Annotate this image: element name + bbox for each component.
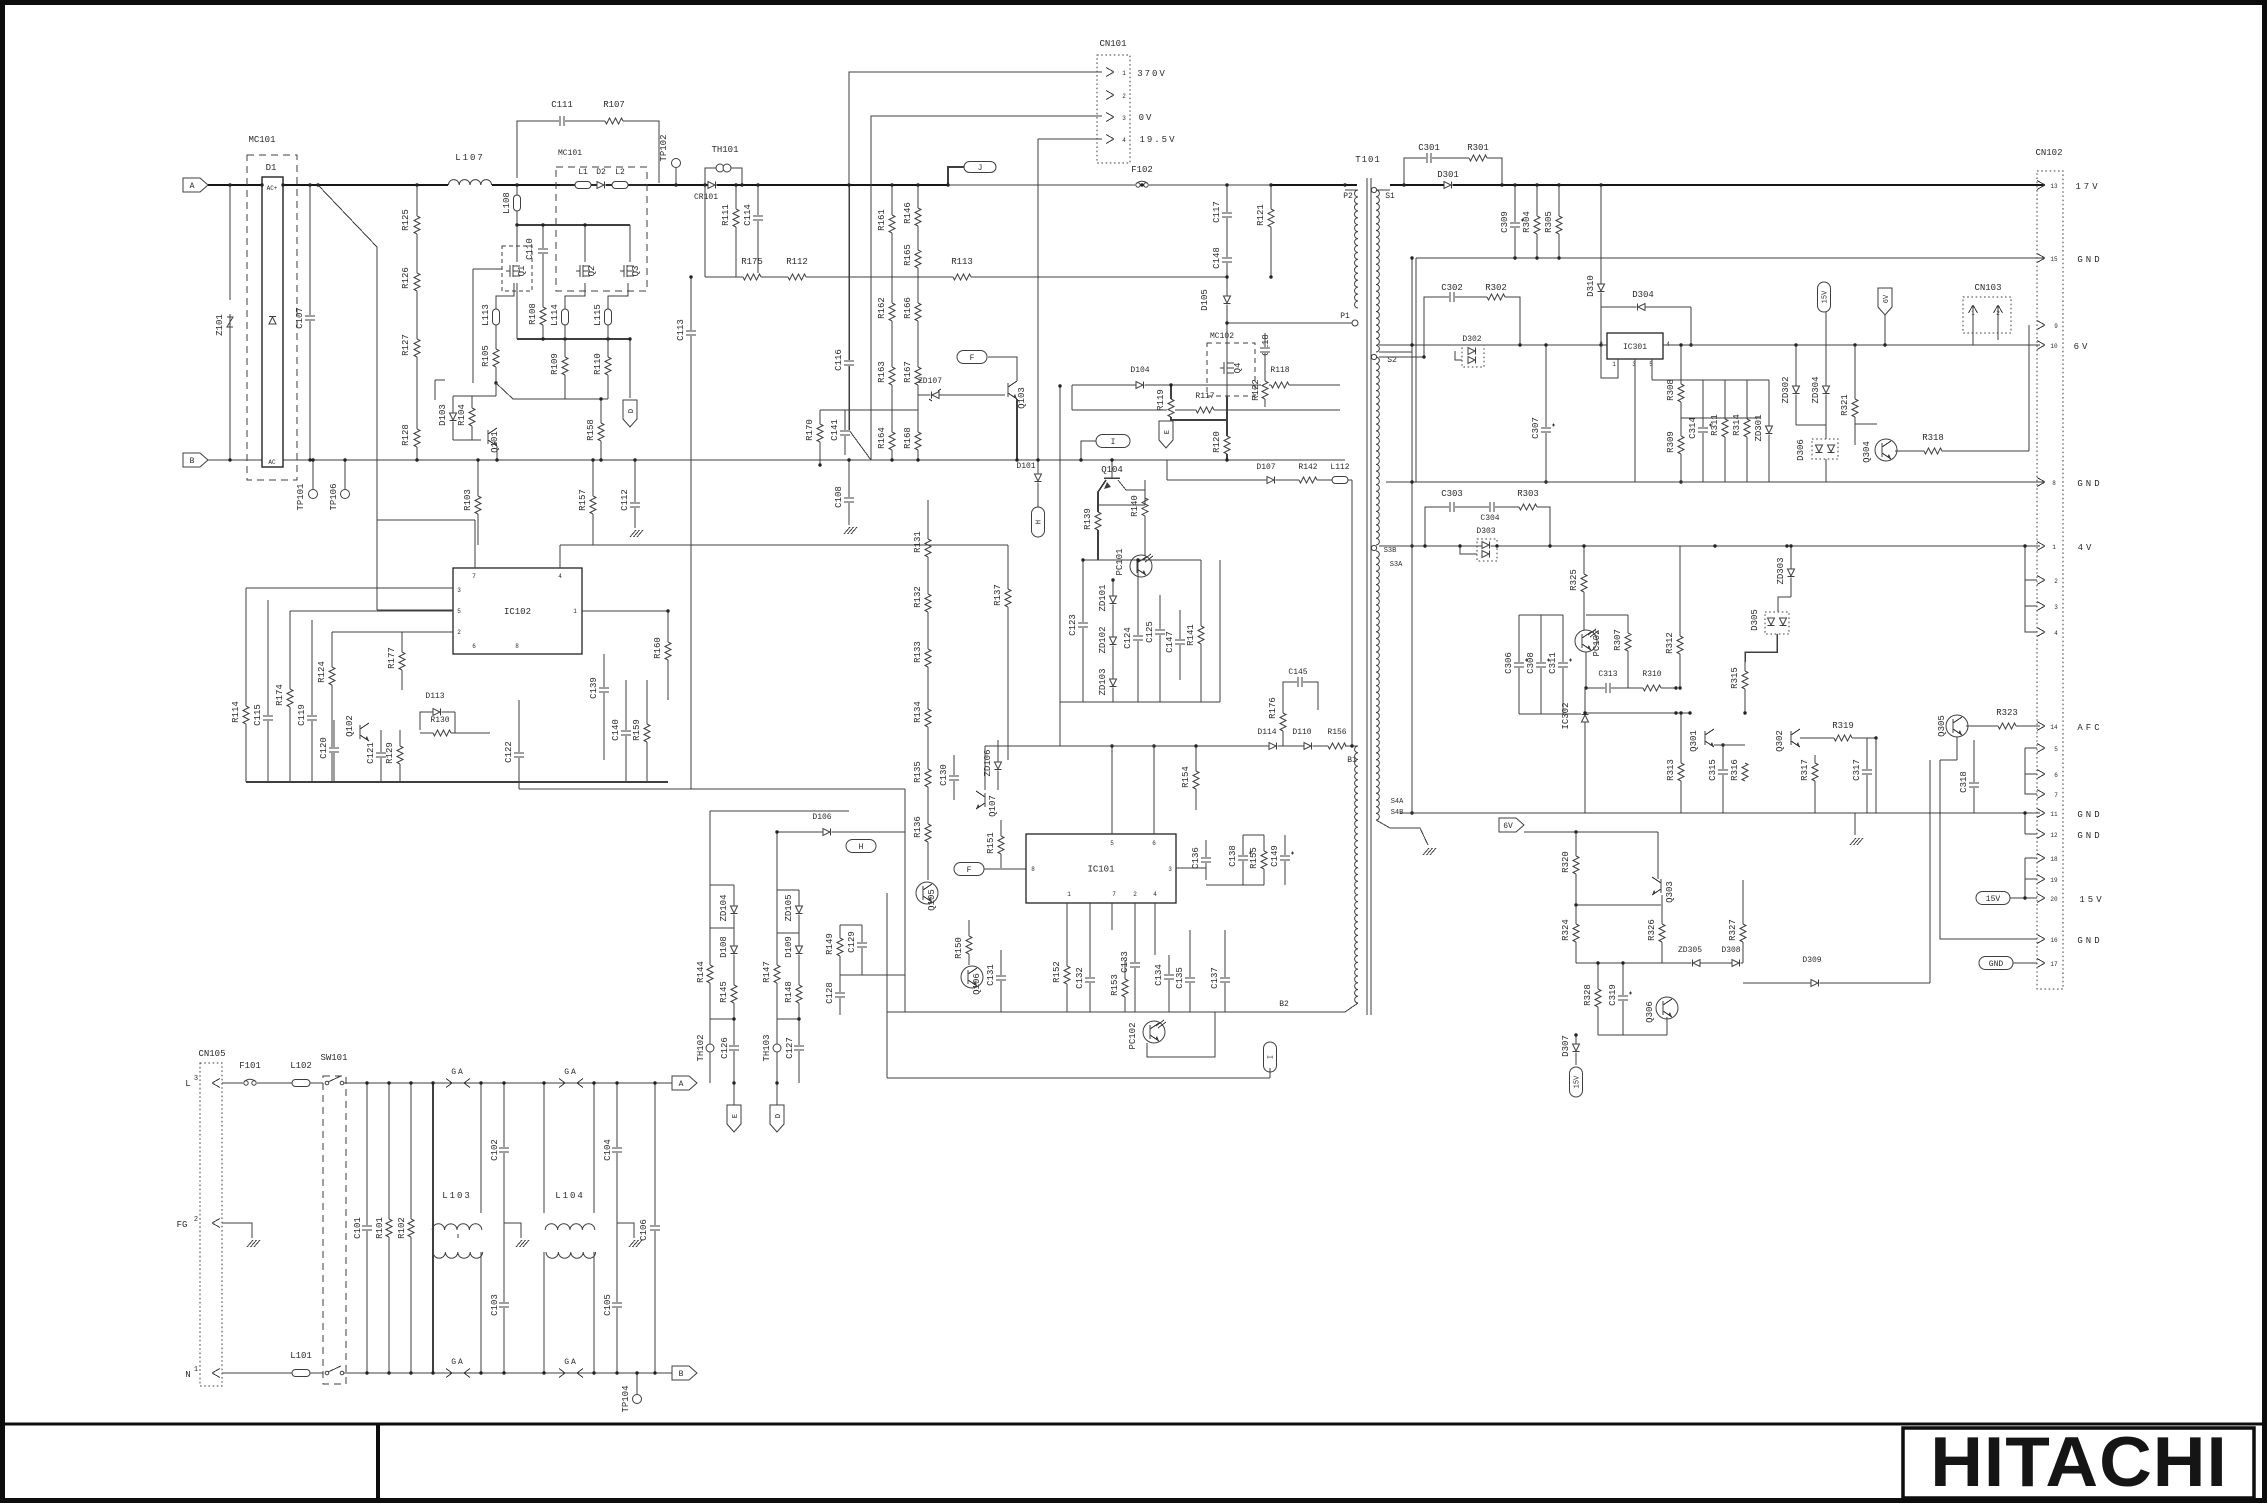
svg-text:R129: R129 [385, 742, 395, 764]
wire ic102 bottom rail [246, 781, 668, 783]
svg-text:R126: R126 [401, 267, 411, 289]
svg-text:GA: GA [451, 1358, 465, 1367]
svg-text:7: 7 [1112, 891, 1116, 898]
svg-text:R152: R152 [1052, 961, 1062, 983]
svg-text:C127: C127 [785, 1037, 795, 1059]
svg-text:CR101: CR101 [694, 193, 718, 202]
svg-text:D301: D301 [1437, 170, 1459, 180]
svg-text:C125: C125 [1145, 621, 1155, 643]
wire d305 to r315 [1745, 634, 1777, 662]
svg-text:GND: GND [1989, 960, 2004, 969]
wire R140 down [1144, 516, 1146, 556]
wire bottom rail 1077 [887, 1077, 1270, 1079]
svg-text:R145: R145 [719, 981, 729, 1003]
svg-text:C136: C136 [1191, 847, 1201, 869]
svg-text:ZD102: ZD102 [1098, 626, 1108, 653]
wire C116 diagonal [849, 430, 871, 460]
svg-text:D: D [775, 1114, 783, 1118]
node B flag bottom [672, 1366, 697, 1380]
svg-text:R164: R164 [877, 427, 887, 449]
svg-text:D107: D107 [1256, 463, 1275, 472]
svg-text:D108: D108 [719, 936, 729, 958]
svg-text:R327: R327 [1728, 919, 1738, 941]
svg-text:C107: C107 [295, 307, 305, 329]
wire row 480 D107 [1167, 479, 1352, 481]
svg-text:1: 1 [573, 608, 577, 615]
wire c306 rails [1519, 614, 1563, 616]
svg-text:R148: R148 [784, 981, 794, 1003]
svg-text:F: F [967, 866, 972, 875]
svg-text:18: 18 [2050, 856, 2058, 863]
svg-text:D1: D1 [266, 163, 277, 173]
svg-text:4: 4 [1122, 137, 1126, 144]
wire 6V bus [1379, 344, 2040, 346]
svg-text:R113: R113 [951, 257, 973, 267]
svg-text:R103: R103 [463, 489, 473, 511]
wire diagonal from bus A [318, 185, 377, 610]
net pin 15V [2037, 894, 2045, 899]
node B input flag [183, 453, 208, 467]
node I pill [1096, 435, 1130, 448]
svg-text:TH103: TH103 [762, 1034, 772, 1061]
svg-text:PC102: PC102 [1128, 1022, 1138, 1049]
svg-text:R153: R153 [1110, 974, 1120, 996]
ground FG [247, 1240, 253, 1247]
node D flag bottom [770, 1105, 784, 1132]
svg-text:R176: R176 [1268, 697, 1278, 719]
svg-text:R139: R139 [1083, 508, 1093, 530]
svg-text:R122: R122 [1251, 379, 1261, 401]
wire r149 rail [840, 924, 862, 926]
svg-text:D302: D302 [1462, 335, 1481, 344]
wire r308 tap [1681, 417, 1760, 419]
svg-text:C313: C313 [1598, 670, 1617, 679]
svg-text:C110: C110 [525, 238, 535, 260]
wire C111 R107 top loop [517, 121, 659, 183]
svg-text:C301: C301 [1418, 143, 1440, 153]
svg-text:C304: C304 [1480, 514, 1499, 523]
svg-text:7: 7 [2054, 792, 2058, 799]
title block divider line [3, 1423, 2265, 1426]
svg-text:C148: C148 [1212, 247, 1222, 269]
svg-text:C149: C149 [1270, 845, 1280, 867]
wire pins 18 19 bracket [2037, 854, 2045, 859]
svg-text:2: 2 [1122, 93, 1126, 100]
svg-text:8: 8 [2052, 480, 2056, 487]
svg-text:D104: D104 [1130, 366, 1149, 375]
svg-text:R160: R160 [653, 637, 663, 659]
wire r321 down to q304 [1854, 430, 1856, 445]
svg-text:C319: C319 [1608, 984, 1618, 1006]
svg-text:R177: R177 [387, 647, 397, 669]
svg-text:S4A: S4A [1391, 798, 1404, 806]
svg-text:R170: R170 [805, 419, 815, 441]
wire S2 line [1379, 356, 1424, 358]
svg-text:ZD304: ZD304 [1811, 376, 1821, 403]
svg-text:1: 1 [1122, 70, 1126, 77]
wire R119 bottom row [1171, 419, 1227, 421]
wire P2 to bus [1343, 183, 1346, 186]
svg-text:R127: R127 [401, 334, 411, 356]
wire L input [222, 1082, 236, 1084]
svg-text:R303: R303 [1517, 489, 1539, 499]
svg-text:C147: C147 [1165, 631, 1175, 653]
svg-text:15V: 15V [1574, 1075, 1582, 1088]
wire f102 bus segment [1140, 183, 1143, 186]
svg-text:N: N [185, 1370, 190, 1380]
svg-text:R101: R101 [375, 1217, 385, 1239]
ground C112 [630, 530, 636, 537]
node I pill vertical [1264, 1042, 1277, 1072]
wire 6V pin [2037, 341, 2045, 346]
svg-text:R128: R128 [401, 424, 411, 446]
svg-text:C145: C145 [1288, 668, 1307, 677]
wire ic102 pin1 right [582, 610, 668, 612]
svg-text:J: J [978, 164, 983, 173]
wire GND rail 258 [1416, 257, 2045, 259]
svg-text:1: 1 [1612, 361, 1616, 368]
svg-text:ZD107: ZD107 [918, 377, 942, 386]
svg-text:C311: C311 [1548, 652, 1558, 674]
wire r137 top [1007, 545, 1009, 560]
module MC101 dashed box 2 [556, 167, 647, 291]
svg-text:Q302: Q302 [1775, 730, 1785, 752]
svg-text:R114: R114 [231, 701, 241, 723]
svg-text:12: 12 [2050, 832, 2058, 839]
svg-text:R149: R149 [825, 933, 835, 955]
wire source rail thick [517, 338, 630, 340]
net pin GND 258 [2037, 254, 2045, 259]
svg-text:C302: C302 [1441, 283, 1463, 293]
svg-text:D304: D304 [1632, 290, 1654, 300]
svg-text:C114: C114 [743, 204, 753, 226]
wire Q101 emitter to bus B [496, 446, 498, 460]
svg-text:16: 16 [2050, 937, 2058, 944]
svg-text:D303: D303 [1476, 527, 1495, 536]
wire 610 link [377, 609, 453, 611]
IC IC301 [1607, 333, 1663, 359]
svg-text:IC302: IC302 [1561, 702, 1571, 729]
wire Q103 collector [988, 357, 1017, 381]
svg-text:GND: GND [2077, 810, 2102, 820]
ground transformer [1423, 848, 1429, 855]
node 15V pill bottom [1976, 892, 2010, 905]
svg-text:0V: 0V [1139, 113, 1154, 123]
svg-text:L1: L1 [578, 168, 588, 177]
svg-text:C111: C111 [551, 100, 573, 110]
wire q303 base [1576, 904, 1661, 906]
svg-text:R310: R310 [1642, 670, 1661, 679]
node 15V pill lower left [1570, 1067, 1583, 1097]
svg-text:D113: D113 [425, 692, 444, 701]
svg-text:HITACHI: HITACHI [1930, 1423, 2228, 1502]
svg-text:R105: R105 [481, 345, 491, 367]
svg-text:IC102: IC102 [504, 607, 531, 617]
wire zd top rails [710, 884, 734, 886]
svg-text:ZD303: ZD303 [1776, 557, 1786, 584]
svg-text:ZD103: ZD103 [1098, 668, 1108, 695]
svg-text:R147: R147 [762, 961, 772, 983]
svg-text:R321: R321 [1840, 394, 1850, 416]
svg-text:C134: C134 [1154, 964, 1164, 986]
svg-text:Q304: Q304 [1862, 441, 1872, 463]
node E flag [1159, 421, 1173, 448]
svg-text:AFC: AFC [2077, 723, 2102, 733]
svg-text:R142: R142 [1298, 463, 1317, 472]
svg-text:R315: R315 [1730, 667, 1740, 689]
svg-text:ZD101: ZD101 [1098, 584, 1108, 611]
svg-text:C121: C121 [366, 742, 376, 764]
svg-text:R130: R130 [430, 716, 449, 725]
svg-text:IC301: IC301 [1623, 343, 1647, 352]
wire Q1 gate [473, 268, 502, 270]
wire bottom rail 1012 [887, 1011, 1345, 1013]
svg-text:3: 3 [1168, 866, 1172, 873]
svg-text:C128: C128 [825, 982, 835, 1004]
wire zd rows [710, 927, 734, 929]
node A input flag [183, 178, 208, 192]
svg-text:R150: R150 [954, 937, 964, 959]
svg-text:R108: R108 [528, 303, 538, 325]
svg-text:GA: GA [564, 1068, 578, 1077]
svg-text:AC: AC [268, 459, 276, 466]
wire bus 17V thick [1390, 184, 2045, 186]
svg-text:IC101: IC101 [1087, 865, 1114, 875]
svg-text:R323: R323 [1996, 708, 2018, 718]
wire filter bottom rail [344, 1372, 673, 1374]
svg-text:R134: R134 [913, 701, 923, 723]
wire gnd16 link [1940, 760, 2037, 939]
svg-text:5: 5 [2054, 746, 2058, 753]
svg-text:L115: L115 [593, 304, 603, 326]
svg-text:C104: C104 [603, 1139, 613, 1161]
svg-text:ZD105: ZD105 [784, 894, 794, 921]
svg-text:D309: D309 [1802, 956, 1821, 965]
wire TH101 down [704, 185, 706, 277]
node 6V flag right [1878, 288, 1892, 315]
svg-text:R155: R155 [1249, 847, 1259, 869]
wire 370V [849, 72, 1102, 185]
svg-text:15: 15 [2050, 256, 2058, 263]
svg-text:L2: L2 [615, 168, 625, 177]
svg-text:C116: C116 [834, 349, 844, 371]
svg-text:C315: C315 [1708, 759, 1718, 781]
wire long rails [519, 788, 905, 790]
wire s4 ground [1376, 820, 1428, 845]
svg-text:R121: R121 [1256, 204, 1266, 226]
wire ic102 left pins [246, 587, 453, 589]
svg-text:ZD301: ZD301 [1754, 414, 1764, 441]
wire cn103 down [1972, 333, 1974, 345]
svg-text:R144: R144 [696, 961, 706, 983]
svg-text:20: 20 [2050, 896, 2058, 903]
wire 19.5V vertical [1037, 139, 1039, 460]
wire d113 r130 join [454, 712, 456, 733]
svg-text:GND: GND [2077, 831, 2102, 841]
svg-text:C105: C105 [603, 1294, 613, 1316]
svg-text:L104: L104 [555, 1191, 585, 1201]
svg-text:R174: R174 [275, 684, 285, 706]
svg-text:R167: R167 [903, 361, 913, 383]
svg-text:R146: R146 [903, 202, 913, 224]
svg-text:R320: R320 [1561, 851, 1571, 873]
svg-text:R165: R165 [903, 244, 913, 266]
svg-text:R154: R154 [1181, 766, 1191, 788]
node A flag bottom [672, 1076, 697, 1090]
svg-text:R301: R301 [1467, 143, 1489, 153]
svg-text:C102: C102 [490, 1139, 500, 1161]
svg-text:R317: R317 [1800, 759, 1810, 781]
svg-text:13: 13 [2050, 183, 2058, 190]
svg-text:TP102: TP102 [659, 134, 669, 161]
svg-text:Q103: Q103 [1017, 387, 1027, 409]
wire r318 up to pin9 [2028, 325, 2030, 451]
svg-text:R326: R326 [1647, 919, 1657, 941]
svg-text:FG: FG [177, 1220, 188, 1230]
svg-text:R166: R166 [903, 297, 913, 319]
svg-text:C120: C120 [319, 737, 329, 759]
wire L112 down [1351, 480, 1353, 746]
svg-text:C135: C135 [1175, 967, 1185, 989]
svg-text:C129: C129 [847, 931, 857, 953]
svg-text:L114: L114 [550, 304, 560, 326]
svg-text:370V: 370V [1137, 69, 1167, 79]
wire q306 rails [1598, 1034, 1667, 1036]
wire right spine 1412 [1411, 258, 1413, 813]
svg-text:L102: L102 [290, 1061, 312, 1071]
svg-text:R112: R112 [786, 257, 808, 267]
svg-text:L108: L108 [502, 192, 512, 214]
svg-text:3: 3 [457, 587, 461, 594]
svg-text:I: I [1268, 1055, 1276, 1059]
svg-text:R157: R157 [578, 489, 588, 511]
svg-text:R161: R161 [877, 209, 887, 231]
wire gnd rail drop [1415, 258, 1417, 482]
svg-text:R311: R311 [1710, 414, 1720, 436]
switch SW101 [323, 1076, 346, 1384]
svg-text:C314: C314 [1688, 417, 1698, 439]
wire bus A thin segment [947, 184, 1271, 186]
svg-text:R141: R141 [1186, 624, 1196, 646]
wire q305 vert [1956, 737, 1958, 760]
svg-text:S1: S1 [1385, 192, 1395, 201]
ground after C102 [504, 1223, 521, 1238]
svg-text:C103: C103 [490, 1294, 500, 1316]
svg-text:A: A [190, 182, 195, 191]
svg-text:17V: 17V [2075, 182, 2100, 192]
svg-text:Z101: Z101 [215, 314, 225, 336]
HITACHI logo box [1903, 1428, 2254, 1498]
svg-text:6: 6 [2054, 772, 2058, 779]
svg-text:L: L [185, 1079, 190, 1089]
node 15V pill right [1818, 282, 1831, 312]
net pin GND 11 [2037, 809, 2045, 814]
svg-text:R304: R304 [1522, 211, 1532, 233]
svg-text:R307: R307 [1613, 629, 1623, 651]
wire 1060 down [1059, 702, 1061, 746]
wire ic301 pins [1601, 344, 1607, 346]
svg-text:R312: R312 [1665, 632, 1675, 654]
net pin 17V [2037, 181, 2045, 186]
svg-text:Q107: Q107 [988, 795, 998, 817]
svg-text:R175: R175 [741, 257, 763, 267]
svg-text:C115: C115 [253, 704, 263, 726]
svg-text:MC101: MC101 [558, 149, 582, 158]
svg-text:C308: C308 [1526, 652, 1536, 674]
svg-text:6V: 6V [2074, 342, 2091, 352]
svg-text:C117: C117 [1212, 201, 1222, 223]
wire pc102 box [1585, 652, 1587, 688]
wire V 1072 [1071, 385, 1073, 410]
svg-text:15V: 15V [1986, 895, 2001, 904]
wire P1 node down [1226, 323, 1228, 460]
wire pins 2 3 4 [2037, 576, 2045, 581]
wire F to IC101 [984, 868, 1026, 870]
wire center vertical 985 [984, 746, 986, 790]
svg-text:2: 2 [1133, 891, 1137, 898]
svg-text:E: E [1164, 430, 1172, 434]
svg-text:H: H [859, 843, 864, 852]
svg-text:1: 1 [1067, 891, 1071, 898]
svg-text:R137: R137 [993, 584, 1003, 606]
wire th103 rail [777, 1018, 799, 1020]
wire IC101 pins down [1066, 903, 1068, 1012]
ground C108 [844, 527, 850, 534]
svg-text:D310: D310 [1586, 275, 1596, 297]
svg-text:C138: C138 [1228, 845, 1238, 867]
svg-text:TP104: TP104 [621, 1385, 631, 1412]
svg-text:R328: R328 [1583, 984, 1593, 1006]
svg-text:R109: R109 [550, 353, 560, 375]
IC IC102 [453, 568, 582, 654]
svg-text:D106: D106 [812, 813, 831, 822]
svg-text:14: 14 [2050, 724, 2058, 731]
wire 4V bus [1379, 545, 2040, 547]
wire q1 source [516, 283, 518, 339]
wire IC101 pin3 right [1176, 867, 1206, 869]
svg-text:R162: R162 [877, 297, 887, 319]
svg-text:D105: D105 [1200, 289, 1210, 311]
svg-text:R118: R118 [1270, 366, 1289, 375]
net pin GND 16 [2037, 935, 2045, 940]
svg-text:10: 10 [2050, 343, 2058, 350]
wire gnd 12 bracket [2024, 813, 2026, 834]
wire th102 rail [710, 1018, 734, 1020]
IC IC101 [1026, 834, 1176, 903]
svg-text:L107: L107 [455, 153, 485, 163]
svg-text:C119: C119 [297, 704, 307, 726]
svg-text:R104: R104 [457, 404, 467, 426]
svg-text:D110: D110 [1292, 728, 1311, 737]
svg-text:T101: T101 [1355, 155, 1381, 165]
svg-text:PC101: PC101 [1115, 548, 1125, 575]
wire row 380 [1652, 379, 1769, 381]
svg-text:6V: 6V [1503, 822, 1513, 831]
svg-text:GA: GA [451, 1068, 465, 1077]
svg-text:C140: C140 [611, 719, 621, 741]
svg-text:3: 3 [194, 1075, 198, 1083]
svg-text:D103: D103 [438, 404, 448, 426]
svg-text:7: 7 [472, 573, 476, 580]
wire pin9 arrow [2037, 321, 2045, 326]
svg-text:C122: C122 [504, 741, 514, 763]
svg-text:R132: R132 [913, 586, 923, 608]
svg-text:Q301: Q301 [1689, 730, 1699, 752]
wire 19.5V [1038, 138, 1102, 140]
svg-text:6: 6 [472, 643, 476, 650]
wire S4 GND rail [1400, 812, 2040, 814]
svg-text:MC101: MC101 [248, 135, 275, 145]
